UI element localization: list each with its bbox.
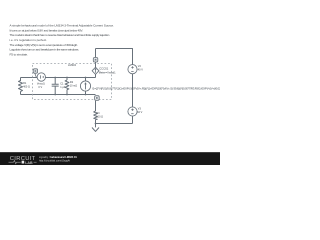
label V2 <box>138 65 143 71</box>
svg-text:Meter=Vmod1: Meter=Vmod1 <box>99 70 116 74</box>
label R1 <box>23 82 30 88</box>
wire left edge stubs <box>20 78 22 95</box>
wire bottom (left loop) <box>21 94 96 96</box>
label CCCS1 <box>99 66 116 74</box>
svg-text:0 V: 0 V <box>38 86 42 89</box>
description paragraph <box>10 24 115 57</box>
source Vmod1 (0V ammeter) <box>37 73 45 81</box>
svg-text:The voltage V(R)-V(S) is set t: The voltage V(R)-V(S) is set to a temper… <box>10 43 79 47</box>
source I1 branch leads <box>85 78 87 95</box>
svg-text:F5 to simulate.: F5 to simulate. <box>10 52 29 56</box>
flag S (bottom) <box>95 96 100 101</box>
svg-text:LM334: LM334 <box>68 63 76 67</box>
capacitor C1 plates <box>52 84 59 86</box>
label V3 <box>137 108 142 114</box>
svg-text:i.e. it's regulation is perfec: i.e. it's regulation is perfect. <box>10 38 48 42</box>
flag V+ (top of box) <box>33 69 37 78</box>
junction dots <box>54 77 96 125</box>
svg-text:Log plots show turn on and bre: Log plots show turn on and breakdown in … <box>10 48 80 52</box>
svg-text:Vmod1: Vmod1 <box>37 83 46 86</box>
wire bottom right <box>96 123 133 125</box>
source V2 <box>128 65 137 74</box>
resistor R1 <box>19 81 23 92</box>
svg-text:It turns on at just below 0.8V: It turns on at just below 0.8V and break… <box>10 28 84 32</box>
svg-text:100 Ω: 100 Ω <box>96 115 103 118</box>
CCCS1 dependent source <box>92 67 99 74</box>
LM334 dashed model box <box>33 64 112 100</box>
resistor R3 <box>94 111 98 120</box>
label R3 <box>96 112 103 118</box>
svg-text:LAB: LAB <box>25 161 33 165</box>
ground <box>92 128 99 132</box>
wire V2 to V3 <box>132 74 134 107</box>
flag R (above CCCS) <box>93 58 98 63</box>
svg-text:CCCS1: CCCS1 <box>99 66 109 70</box>
svg-text:10 V: 10 V <box>137 111 142 114</box>
wire R3 run <box>95 101 97 124</box>
source I1 <box>80 81 90 91</box>
label R2 <box>70 81 78 88</box>
label C1 <box>60 82 66 89</box>
svg-text:signality / behavioural LM334: signality / behavioural LM334 01 <box>39 155 77 159</box>
footer bar <box>0 152 220 165</box>
svg-text:10 mΩ: 10 mΩ <box>70 85 78 88</box>
svg-text:http://circuitlab.com/c5zgq4t: http://circuitlab.com/c5zgq4t <box>39 160 70 163</box>
wire top connector to V2 <box>96 49 133 65</box>
svg-text:40 V: 40 V <box>138 68 143 71</box>
wire CCCS branch <box>95 49 97 78</box>
resistor R2 <box>65 80 69 90</box>
ground stem <box>95 124 97 128</box>
svg-text:A simple behavioural model of: A simple behavioural model of the LM334 … <box>10 24 115 28</box>
svg-text:I1=(2*V(R,S)/0.0677)*(1/(1+EXP: I1=(2*V(R,S)/0.0677)*(1/(1+EXP(-100*V(V+… <box>92 86 220 90</box>
capacitor C1 leads <box>54 78 56 95</box>
source V3 <box>128 107 137 116</box>
label Vmod1 <box>37 83 46 90</box>
resistor R2 leads <box>66 78 68 95</box>
svg-text:1 µF: 1 µF <box>60 86 66 89</box>
wire V3 down <box>132 116 134 123</box>
svg-text:400 Ω: 400 Ω <box>23 86 30 89</box>
wire top (left loop) <box>21 77 96 79</box>
svg-text:The model is ideal in that it: The model is ideal in that it has no rev… <box>10 33 111 37</box>
